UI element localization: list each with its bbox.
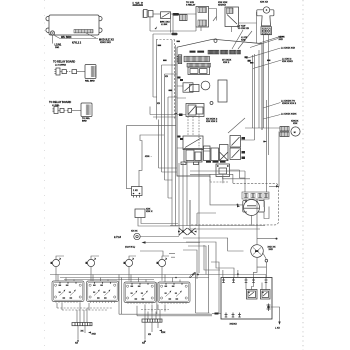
wire board inner edge: [258, 50, 260, 128]
wire light to oven: [254, 267, 267, 277]
junction arrow: [264, 141, 268, 143]
leader right1: [250, 39, 278, 48]
pigtail 1 cable: [60, 71, 72, 73]
leader door: [228, 118, 245, 133]
wire bus below: [190, 228, 260, 230]
wire module lead: [55, 36, 99, 39]
wire sensor right: [230, 170, 246, 178]
oven bottom pin 2: [232, 313, 235, 318]
wire to breaker: [153, 13, 161, 15]
oven top pin 2: [232, 278, 235, 283]
leader to strip: [86, 33, 96, 38]
connector row block 2: [221, 50, 229, 54]
leader right5: [263, 115, 281, 120]
svg-text:X RELAY: X RELAY: [186, 4, 196, 7]
wire conv feed2: [190, 171, 245, 192]
long wire bottom: [137, 315, 212, 317]
wire corner mid: [190, 200, 216, 226]
svg-text:L1 CONN2: L1 CONN2: [55, 65, 67, 67]
nested fanout corner 2: [186, 242, 234, 278]
svg-text:K/YL2 2: K/YL2 2: [72, 42, 82, 45]
wire bus row2: [60, 277, 209, 279]
relay RY3: [183, 136, 203, 150]
K3 terminal bottom: [198, 20, 207, 26]
wire relay small drop: [138, 218, 178, 227]
surface switch SW4: [158, 282, 190, 304]
wire run v8: [175, 45, 177, 226]
oven top pin 1: [222, 278, 225, 283]
svg-text:L1/L2: L1/L2: [133, 1, 144, 6]
wire drop left: [171, 14, 174, 33]
element strip 2: [142, 319, 162, 322]
surface switch SW3: [124, 282, 156, 304]
wire run right v9: [178, 163, 180, 236]
circuit breaker CB1: [161, 12, 171, 19]
oven bottom pin 1: [225, 313, 228, 318]
display window box: [188, 67, 210, 74]
cooling fan connector top: [280, 127, 289, 132]
wire K4 right: [239, 22, 257, 24]
harness outline inner: [139, 135, 164, 187]
mounting ear top-right: [99, 16, 102, 20]
wire bus top2: [153, 33, 177, 35]
harness outline outer: [126, 126, 176, 189]
svg-text:L XX: L XX: [275, 328, 280, 330]
wire motor bottom: [252, 207, 270, 226]
relay feet tabs: [181, 162, 186, 165]
svg-text:2.7±.8: 2.7±.8: [114, 236, 122, 239]
wire bus under splice: [170, 225, 265, 227]
right relay R6: [230, 148, 241, 160]
conv terminal strip: [242, 192, 269, 199]
wire element1 below: [78, 326, 85, 339]
svg-text:XXX 2: XXX 2: [223, 62, 230, 64]
relay RY4 block: [184, 149, 202, 163]
relay K1 body: [218, 80, 227, 102]
switch top stubs sw1: [58, 275, 74, 282]
mounting ear bottom-right: [99, 28, 102, 32]
burner element LR: [158, 259, 165, 266]
svg-text:TO RELAY BOARD: TO RELAY BOARD: [49, 101, 71, 104]
relay RY2: [186, 104, 204, 117]
wire into enclosure: [210, 174, 243, 205]
oven top pin 3: [245, 278, 248, 283]
fan connector: [261, 27, 272, 35]
wire drop to bus: [149, 17, 151, 31]
cooling fan motor M2: [291, 127, 300, 136]
leader right4: [263, 103, 281, 109]
svg-text:TO RELAY BOARD: TO RELAY BOARD: [53, 61, 75, 64]
svg-text:XXX: XXX: [279, 39, 284, 41]
thermal fuse: [268, 304, 270, 312]
wire breaker to relay: [171, 13, 197, 15]
wire light bottom: [257, 257, 266, 267]
wire element1 drops: [77, 308, 87, 323]
junction box pins: [134, 196, 140, 198]
pigtail 2 receptacle: [81, 103, 92, 117]
svg-text:XXXXX: XXXXX: [230, 324, 238, 326]
dashed bus right: [141, 309, 169, 311]
board edge comb J2: [178, 55, 181, 64]
wire light top: [257, 200, 276, 245]
control module A1: [49, 15, 99, 35]
wire run v6: [168, 97, 177, 198]
svg-text:WH BRN: WH BRN: [61, 36, 71, 39]
relay K3 coil: [180, 15, 188, 21]
svg-text:1 XX: 1 XX: [133, 190, 138, 192]
pigtail 2 lead: [72, 109, 81, 111]
switch K4 body: [225, 7, 239, 27]
feed plug: [148, 11, 153, 17]
wire L1/N1 drop: [52, 35, 54, 43]
wire fuse exit: [270, 307, 280, 323]
svg-text:XXX XX: XXX XX: [260, 2, 268, 4]
wire fan left drop: [256, 12, 258, 43]
nested fanout corner 1: [183, 238, 244, 251]
ribbon connector strip 1: [184, 56, 210, 62]
connector row block 3: [230, 50, 237, 54]
pigtail 1 plug 2: [72, 70, 77, 74]
wire board stubs: [177, 86, 186, 148]
junction dots bus: [197, 274, 199, 276]
wire K3 to K4: [209, 9, 217, 21]
inter-box wires b: [156, 282, 158, 314]
oven light L1: [251, 245, 264, 258]
burner element RF: [52, 259, 59, 266]
relay K3 body: [196, 7, 209, 28]
wire burner link left: [169, 254, 175, 258]
connector row block 1: [208, 50, 219, 54]
wire sw34 drops: [145, 305, 165, 312]
svg-text:(C23 W-L): (C23 W-L): [125, 247, 135, 249]
wire run v4: [162, 65, 177, 172]
svg-text:XXX: XXX: [293, 123, 298, 125]
svg-text:XX XX: XX XX: [131, 231, 138, 233]
transformer core circle: [201, 81, 210, 90]
wire arrow C23: [146, 242, 201, 244]
wire element2 drops: [145, 310, 160, 320]
conv enclosure: [190, 183, 279, 225]
pin blob pair 2: [178, 136, 181, 138]
dashed bus left: [57, 307, 113, 309]
indicator circle: [210, 102, 213, 105]
wire bus row3: [64, 279, 154, 281]
pigtail 1 lead: [77, 71, 85, 73]
spark module P: [134, 233, 140, 239]
wire run right v10: [182, 163, 184, 232]
wire cross h1: [150, 107, 176, 115]
wire relay to coolfan: [241, 54, 281, 140]
dot left: [237, 204, 239, 206]
door latch switch 2: [261, 290, 271, 300]
wire bottom join: [196, 307, 210, 313]
grommet terminal: [50, 31, 54, 35]
wire bottom exit: [210, 176, 228, 182]
mounting ear top-left: [46, 16, 49, 20]
K3 terminal top: [198, 8, 207, 13]
control board outline: [177, 39, 262, 176]
conv motor leads: [246, 199, 264, 216]
svg-text:MODULE XX: MODULE XX: [99, 39, 114, 42]
wire relay links: [188, 114, 199, 148]
svg-text:BRD: BRD: [82, 121, 87, 123]
wire pins to latches: [246, 283, 266, 290]
wire oven feed left: [204, 245, 220, 270]
svg-text:X/XXXX: X/XXXX: [218, 5, 226, 7]
wire run right v13: [198, 160, 200, 273]
fan bracket: [257, 10, 274, 26]
connector row block 4: [237, 50, 241, 54]
pigtail 2 plug 2: [68, 108, 72, 112]
switch top stubs sw4: [165, 275, 180, 283]
burner element RR: [125, 259, 132, 266]
conv motor M3: [244, 200, 260, 216]
pigtail 2 cable: [58, 109, 68, 111]
pin blob: [179, 114, 183, 117]
surface switch SW2: [87, 281, 119, 303]
K4 switch arm: [227, 15, 237, 25]
wire run right v12: [189, 200, 191, 230]
svg-text:M: M: [294, 132, 296, 134]
pigtail 2 plug: [60, 108, 64, 112]
pigtail 2 comb connector: [54, 107, 58, 114]
wire burner tops: [56, 256, 169, 259]
wire corner low: [140, 251, 163, 256]
door latch switch 1: [247, 290, 258, 300]
terminal marks: [242, 137, 246, 140]
wire conv feed: [190, 174, 233, 183]
nested fanout corner 3: [188, 246, 206, 274]
wire cross h2: [153, 116, 176, 118]
oven top pin 4: [252, 278, 255, 283]
wire P to splice: [140, 236, 179, 238]
element strip 1: [72, 323, 92, 326]
svg-text:L1 XXXX XXXX: L1 XXXX XXXX: [281, 114, 297, 116]
switch top stubs sw2: [93, 275, 108, 282]
wire code specks: [158, 45, 162, 47]
junction splice X2: [188, 228, 196, 235]
wire run right v11: [186, 160, 188, 226]
wire oven left entry: [212, 313, 221, 315]
conv arrow: [269, 185, 276, 187]
leader to row: [232, 30, 252, 49]
wire run v3: [159, 120, 178, 169]
leader right2: [246, 48, 281, 59]
wire oven feed 2: [211, 262, 219, 270]
wire oven top entries: [223, 270, 238, 278]
ribbon connector strip 2: [187, 63, 211, 67]
svg-text:REL BRD: REL BRD: [85, 81, 95, 83]
svg-text:XXX XXXX: XXX XXXX: [282, 61, 293, 63]
svg-text:XXXX XXX: XXXX XXX: [100, 42, 111, 44]
relay box small: [135, 209, 145, 218]
fan motor M4: [263, 7, 269, 13]
wire K3 drop: [201, 27, 232, 33]
leader line: [260, 37, 280, 43]
svg-text:XXX: XXX: [161, 332, 166, 334]
module connector strip P1: [74, 30, 93, 33]
oven chassis box: [221, 278, 272, 320]
label row dark: [206, 161, 211, 163]
splice blobs: [182, 230, 184, 232]
wire run v2: [156, 40, 158, 120]
arrow mark: [155, 26, 158, 29]
relay RY1: [183, 83, 193, 92]
svg-text:XXX XXX 2: XXX XXX 2: [206, 121, 218, 123]
junction dot: [175, 113, 177, 115]
wire run v1: [153, 34, 157, 97]
splice blob: [173, 13, 180, 16]
wire run v7: [171, 40, 173, 226]
inter-box wires a: [119, 275, 122, 315]
leader right3: [253, 60, 282, 69]
relay bank tall 2: [211, 148, 219, 161]
K4 terminal: [227, 8, 234, 14]
wire coolfan drop: [278, 132, 280, 187]
wire element2 below: [145, 322, 158, 339]
svg-text:XXX: XXX: [241, 40, 246, 42]
pigtail 1 comb connector: [56, 68, 60, 75]
svg-text:L1 BK: L1 BK: [161, 24, 168, 26]
svg-text:TO XXX XX: TO XXX XX: [238, 28, 250, 30]
surface switch SW1: [52, 281, 84, 303]
relay bank tall 1: [204, 146, 211, 161]
pigtail 1 plug: [62, 70, 66, 74]
wire left vert: [218, 270, 220, 313]
wire junction: [262, 141, 265, 143]
junction box 1xx: [132, 187, 143, 196]
feed comb connector: [144, 10, 148, 18]
board mark x1: [245, 56, 248, 58]
svg-text:XXX: XXX: [92, 334, 97, 336]
wire burner drops: [56, 267, 162, 281]
relay bank tall 3: [220, 145, 229, 161]
label BRN WHT pair: [190, 51, 196, 53]
switch top stubs sw3: [131, 275, 146, 283]
conv motor bracket right: [259, 201, 265, 212]
arrow mark ne: [237, 205, 240, 207]
wire right risers: [196, 245, 209, 313]
sensor box: [216, 164, 230, 177]
oven bottom pin 3: [238, 313, 241, 318]
wire fan drops: [264, 35, 269, 192]
svg-text:XXX X: XXX X: [146, 211, 153, 213]
wire sw1 drops: [57, 303, 89, 310]
burner element LF: [87, 259, 94, 266]
conv motor bracket left: [243, 201, 247, 212]
wire run v5: [165, 74, 177, 180]
board hole: [214, 39, 217, 43]
svg-text:XXXXX XXX 2: XXXXX XXX 2: [282, 103, 297, 105]
mounting ear bottom-left: [46, 28, 49, 32]
right relay R5: [230, 136, 241, 148]
wire bus top1: [150, 27, 196, 31]
nested fanout corner 4: [183, 250, 197, 279]
svg-text:L1 XXXX XXX: L1 XXXX XXX: [281, 48, 296, 50]
wire bus row1: [50, 275, 266, 278]
pin blob pair: [178, 77, 181, 79]
wire sensor bottom: [223, 177, 250, 179]
cooling fan connector bottom: [280, 132, 289, 137]
oven top pin 5: [265, 278, 268, 283]
junction splice X1: [179, 228, 187, 235]
splice blob: [172, 33, 178, 35]
wire zig: [213, 17, 217, 22]
pigtail 1 receptacle: [85, 65, 96, 79]
svg-text:XXX: XXX: [269, 249, 274, 251]
wire dashed console: [156, 40, 175, 120]
